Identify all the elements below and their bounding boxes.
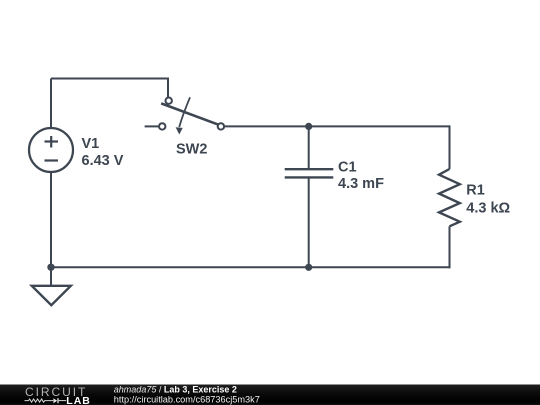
svg-text:C1: C1 (338, 159, 357, 175)
wire (50, 266, 451, 268)
wire (167, 78, 169, 98)
resistor R1 (439, 169, 460, 226)
ground (32, 286, 71, 305)
svg-text:http://circuitlab.com/c68736cj: http://circuitlab.com/c68736cj5m3k7 (114, 394, 260, 404)
wire (308, 178, 310, 267)
svg-text:4.3 kΩ: 4.3 kΩ (466, 201, 510, 217)
svg-text:4.3 mF: 4.3 mF (338, 176, 384, 192)
svg-text:ahmada75 / Lab 3, Exercise 2: ahmada75 / Lab 3, Exercise 2 (114, 385, 237, 395)
wire (224, 125, 449, 127)
svg-text:LAB: LAB (66, 395, 91, 405)
wire (449, 125, 451, 169)
wire (145, 125, 159, 127)
wire (51, 78, 168, 80)
svg-text:R1: R1 (466, 182, 485, 198)
svg-text:6.43 V: 6.43 V (82, 153, 124, 169)
wire (50, 79, 52, 129)
junction node at C1 bottom (305, 264, 312, 271)
CircuitLab logo (25, 385, 91, 405)
wire (50, 267, 52, 286)
svg-text:SW2: SW2 (176, 142, 207, 158)
junction node at ground (47, 264, 54, 271)
junction node at C1 top (305, 123, 312, 130)
footer text (114, 385, 260, 405)
wire (50, 172, 52, 268)
voltage source V1 (29, 128, 73, 172)
svg-text:V1: V1 (82, 136, 100, 152)
capacitor C1 (285, 169, 334, 177)
switch SW2 (159, 97, 224, 134)
wire (308, 126, 310, 168)
wire (449, 226, 451, 268)
